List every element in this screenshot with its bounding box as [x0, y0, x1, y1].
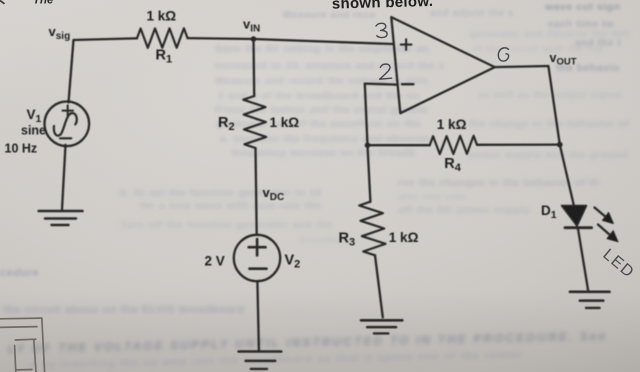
ground under V2	[239, 350, 282, 353]
wire v_sig corner down to V1	[69, 40, 74, 103]
resistor R3	[359, 202, 385, 256]
handwritten pin number 6	[498, 48, 508, 61]
wire pin 2 down to feedback node	[365, 84, 368, 146]
LED D1	[562, 206, 587, 227]
node R4/v_OUT junction dot	[557, 142, 563, 148]
wire node to R4	[368, 144, 430, 146]
voltage source V2	[234, 235, 280, 281]
wire V1 to ground	[62, 145, 66, 210]
wire op-amp output to v_OUT corner and down	[495, 66, 560, 145]
handwritten pin number 2	[380, 64, 392, 79]
wire v_IN down to R2	[252, 39, 255, 96]
wire op-amp pin 2 stub	[365, 84, 397, 85]
wire V2 to ground	[257, 281, 259, 351]
pencil sketch of breadboard corner	[0, 318, 45, 372]
heading text "shown below."	[332, 0, 434, 13]
wire v_OUT node down to D1	[560, 145, 574, 206]
wire D1 to ground	[578, 229, 588, 292]
wire R4 to v_OUT column	[477, 143, 560, 145]
feedback node junction dot	[365, 142, 371, 148]
resistor R1	[137, 28, 188, 48]
handwritten pin number 3	[376, 23, 387, 37]
wire R1 to v_IN to op-amp pin 3	[188, 38, 393, 44]
ground under D1	[570, 290, 610, 293]
wire v_sig to R1	[74, 38, 138, 40]
wire R3 to ground	[375, 255, 383, 317]
ground under V1	[39, 210, 83, 213]
wire R2 to V2 (node v_DC)	[256, 148, 257, 235]
page corner pen mark	[0, 1, 5, 4]
op-amp U1	[391, 17, 495, 113]
voltage source V1	[45, 102, 90, 147]
node v_IN junction dot	[251, 36, 257, 42]
ground under R3	[361, 319, 402, 322]
wire feedback node down to R3	[368, 145, 371, 202]
LED light arrow 1	[595, 208, 606, 217]
handwritten note LED	[599, 246, 637, 282]
resistor R2	[243, 96, 266, 148]
LED light arrow 2	[598, 225, 610, 235]
resistor R4	[430, 136, 477, 154]
